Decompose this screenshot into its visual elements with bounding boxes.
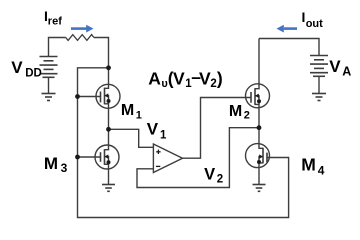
svg-text:V: V [11, 58, 23, 77]
svg-text:M: M [301, 154, 316, 174]
svg-text:V: V [199, 69, 211, 89]
svg-text:M: M [44, 154, 58, 173]
svg-text:M: M [229, 103, 242, 120]
svg-text:3: 3 [61, 161, 68, 175]
svg-text:out: out [306, 18, 323, 30]
svg-text:2: 2 [217, 173, 223, 185]
svg-text:1: 1 [136, 110, 142, 122]
svg-text:V: V [204, 165, 215, 183]
svg-text:2: 2 [244, 110, 250, 122]
svg-text:A: A [342, 65, 351, 79]
svg-text:2: 2 [210, 78, 216, 90]
svg-text:): ) [217, 69, 223, 89]
svg-text:1: 1 [160, 129, 167, 141]
svg-text:4: 4 [318, 164, 325, 178]
svg-text:V: V [173, 69, 185, 89]
svg-text:V: V [147, 119, 159, 138]
svg-text:DD: DD [25, 67, 42, 79]
svg-text:M: M [121, 102, 134, 119]
svg-text:ref: ref [48, 15, 62, 27]
svg-text:A: A [148, 69, 161, 89]
svg-text:V: V [329, 57, 341, 76]
